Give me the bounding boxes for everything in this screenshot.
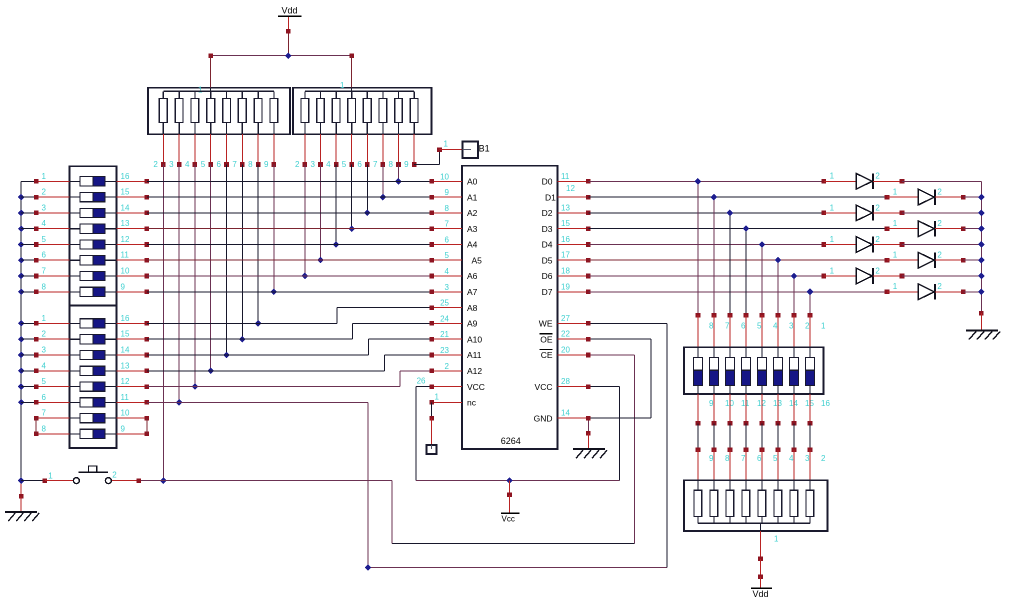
RP1 pin 7 square (240, 162, 245, 167)
svg-text:7: 7 (725, 322, 730, 331)
DSW2 switch 3 glyph (70, 350, 117, 359)
U1 pin 23 (A11) stub (432, 354, 462, 356)
DSW3 pin 2 stub (793, 315, 795, 347)
wire D3 to right bus (963, 228, 981, 230)
RP3 pin 3 stub (793, 450, 795, 481)
DSW2 pin 6 stub (21, 401, 69, 403)
DSW3 pin 12 stub (745, 394, 747, 424)
svg-text:9: 9 (445, 188, 450, 197)
wire RP2 pin 7 pull-up vertical (382, 165, 384, 198)
RP3 pin 7 stub (729, 450, 731, 481)
DSW1 pin 2 square (34, 195, 39, 200)
RP1 pin 6 square (224, 162, 229, 167)
wire RP2 pin 3 pull-up vertical (320, 165, 322, 261)
wire DSW3 pin 9 to RP3 (697, 423, 699, 449)
U1 pin 12 (D1) stub (558, 196, 589, 198)
DSW1 switch 6 glyph (70, 256, 117, 265)
svg-text:4: 4 (42, 219, 47, 228)
svg-text:19: 19 (561, 282, 570, 291)
U1 pin 1 square (429, 400, 434, 405)
wire RP2 pin 2 pull-up vertical (304, 165, 306, 277)
diode D4 (887, 221, 963, 237)
wire address A10 route (147, 339, 432, 355)
wire RP2 pin 5 pull-up vertical (351, 165, 353, 229)
DSW3 pin 11 stub (729, 394, 731, 424)
RP2 resistor element 4 (332, 91, 340, 164)
wire DSW3 pin 11 to RP3 (729, 423, 731, 449)
svg-text:18: 18 (561, 267, 570, 276)
wire data row D1 (588, 196, 887, 198)
DSW3 pin 8 square (696, 313, 701, 318)
svg-text:3: 3 (789, 322, 794, 331)
DSW1 pin 10 square (145, 274, 150, 279)
DSW1 pin 15 square (145, 195, 150, 200)
RP1 internal bus (163, 90, 274, 92)
DSW1 switch 2 glyph (70, 193, 117, 202)
node D0 tap junction (695, 178, 702, 185)
diode D7 pin labels (830, 266, 881, 275)
svg-text:2: 2 (295, 160, 300, 169)
DSW2 pin 12 stub (117, 386, 147, 388)
DSW2 pin 5 stub (21, 386, 69, 388)
RP1 resistor element 3 (175, 91, 183, 164)
DSW2 pin 15 stub (117, 338, 147, 340)
U1 pin 11 square (586, 179, 591, 184)
svg-text:7: 7 (42, 409, 47, 418)
wire address A9 route (147, 323, 432, 339)
svg-text:Vdd: Vdd (753, 589, 769, 599)
wire address row A1 (147, 196, 432, 198)
wire RP2 pin 6 pull-up vertical (366, 165, 368, 213)
svg-text:A8: A8 (467, 303, 478, 313)
RP1 pin 9 square (272, 162, 277, 167)
RP3 common pin 1 wire (760, 523, 762, 559)
pin square button pin 2 (137, 478, 142, 483)
DSW3 pin 9 stub (697, 394, 699, 424)
diode D8 (887, 284, 963, 300)
svg-text:1: 1 (774, 535, 779, 544)
DSW2 pin 7 square (34, 416, 39, 421)
wire RP1 pin 7 pull-up vertical (241, 165, 243, 340)
U1 pin 10 (A0) stub (432, 180, 462, 182)
DSW2 pin 16 square (145, 321, 150, 326)
DSW3 switch 2 glyph (789, 347, 798, 394)
RP3 pin 9 square (696, 447, 701, 452)
DSW3 pin 6 square (728, 313, 733, 318)
power symbol Vdd (bottom) (751, 577, 772, 599)
wire D1 to right bus (963, 196, 981, 198)
node RP2 pin 8 junction (395, 178, 402, 185)
svg-text:15: 15 (561, 219, 570, 228)
node left bus junction (18, 399, 25, 406)
node RP1 pin 9 junction (271, 288, 278, 295)
DSW1 pin 14 stub (117, 212, 147, 214)
DSW3 switch 5 glyph (741, 347, 750, 394)
U1 pin 17 (D5) stub (558, 259, 589, 261)
DSW3 pin 7 stub (713, 315, 715, 347)
U1 pin 26 square (429, 384, 434, 389)
wire RP2 pin 8 pull-up vertical (398, 165, 400, 182)
svg-text:6: 6 (357, 160, 362, 169)
svg-text:16: 16 (821, 399, 830, 408)
RP3 pin 5 square (760, 447, 765, 452)
DSW2 switch 2 glyph (70, 335, 117, 344)
node left bus junction (18, 352, 25, 359)
node D4 tap junction (759, 241, 766, 248)
U1 pin 20 (CE) stub (558, 354, 589, 356)
diode D7 pin 1 square (822, 274, 827, 279)
RP3 pin 5 stub (761, 450, 763, 481)
svg-text:2: 2 (805, 322, 810, 331)
node D3 tap junction (743, 225, 750, 232)
diode D1 pin 1 square (822, 179, 827, 184)
wire D6 to right bus (902, 275, 981, 277)
DSW2 pin 3 stub (21, 354, 69, 356)
DSW2 pin 14 stub (117, 354, 147, 356)
RP1 pin 5 square (208, 162, 213, 167)
ground (chip GND) (573, 449, 607, 458)
node RP1 pin 8 junction (255, 320, 262, 327)
svg-text:4: 4 (42, 361, 47, 370)
U1 pin 5 (A5) stub (432, 259, 462, 261)
RP3 resistor element 3 (790, 480, 798, 523)
DSW1 pin 16 stub (117, 180, 147, 182)
U1 pin 28 square (586, 384, 591, 389)
RP1 resistor element 5 (207, 91, 215, 164)
svg-text:A1: A1 (467, 192, 478, 202)
pin square B1 pin 1 (437, 147, 442, 152)
svg-text:17: 17 (561, 251, 570, 260)
svg-text:12: 12 (121, 235, 130, 244)
svg-text:A6: A6 (467, 271, 478, 281)
wire DSW3 pin 13 to RP3 (761, 423, 763, 449)
node WE net corner junction (365, 564, 372, 571)
DSW3 pin 3 stub (777, 315, 779, 347)
svg-text:A7: A7 (467, 287, 478, 297)
svg-text:12: 12 (121, 377, 130, 386)
DIP switch DSW1 body (70, 166, 117, 305)
U1 pin 15 square (586, 226, 591, 231)
DSW3 switch 3 glyph (773, 347, 782, 394)
DSW2 switch 6 glyph (70, 398, 117, 407)
node left bus junction (18, 225, 25, 232)
DSW1 switch 1 glyph (70, 177, 117, 186)
wire RP1 pin 2 pull-up vertical (162, 165, 164, 481)
DSW2 pin 11 stub (117, 401, 147, 403)
U1 pin 26 (VCC) stub (432, 386, 462, 388)
DSW1 switch 3 glyph (70, 208, 117, 217)
U1 pin 11 (D0) stub (558, 180, 589, 182)
pin square test connector (429, 416, 434, 421)
wire address row A5 (147, 259, 432, 261)
diode D2 pin 1 square (885, 195, 890, 200)
wire D7 to DSW3 pin 1 (809, 292, 811, 315)
U1 pin 19 (D7) stub (558, 291, 589, 293)
U1 pin 27 square (586, 321, 591, 326)
DSW3 pin 5 square (744, 313, 749, 318)
DSW1 pin 4 square (34, 226, 39, 231)
RP1 resistor element 2 (159, 91, 167, 164)
U1 pin 17 square (586, 258, 591, 263)
DSW1 pin 3 stub (21, 212, 69, 214)
node RP1 pin 5 junction (207, 367, 214, 374)
DSW3 switch 8 glyph (693, 347, 702, 394)
wire RP1 pin 9 pull-up vertical (273, 165, 275, 292)
U1 pin 21 square (429, 337, 434, 342)
DSW1 pin 7 square (34, 274, 39, 279)
svg-text:1: 1 (893, 251, 898, 260)
svg-text:Vcc: Vcc (502, 515, 515, 524)
svg-text:25: 25 (440, 299, 449, 308)
node left bus junction (18, 383, 25, 390)
svg-text:10: 10 (121, 409, 130, 418)
svg-text:1: 1 (48, 472, 53, 481)
svg-text:1: 1 (198, 86, 203, 95)
node RP2 pin 7 junction (380, 194, 387, 201)
svg-text:2: 2 (153, 160, 158, 169)
svg-text:WE: WE (539, 319, 553, 329)
svg-text:7: 7 (42, 267, 47, 276)
DSW3 switch 6 glyph (725, 347, 734, 394)
DSW3 pin 14 square (776, 421, 781, 426)
RP2 pin 6 square (365, 162, 370, 167)
svg-text:2: 2 (42, 330, 47, 339)
svg-text:nc: nc (467, 398, 477, 408)
node left bus junction (18, 320, 25, 327)
DSW2 pin 7 stub (36, 417, 69, 419)
svg-text:14: 14 (561, 409, 570, 418)
svg-text:9: 9 (264, 160, 269, 169)
push button SW1 (45, 466, 139, 484)
wire ground right stub (980, 313, 982, 330)
diode D5 pin 1 square (822, 242, 827, 247)
node D1 tap junction (711, 194, 718, 201)
diode D2 pin labels (893, 188, 943, 197)
svg-text:D4: D4 (542, 240, 553, 250)
DIP switch DSW2 body (70, 306, 117, 449)
U1 pin 2 (A12) stub (432, 370, 462, 372)
svg-text:2: 2 (875, 235, 880, 244)
DSW1 pin 1 stub (21, 180, 69, 182)
svg-text:13: 13 (121, 219, 130, 228)
wire address A8 route (147, 308, 432, 324)
DSW2 pin 11 square (145, 400, 150, 405)
diode D8 pin 2 square (961, 290, 966, 295)
DSW3 pin 16 square (808, 421, 813, 426)
RP1 pin 8 square (256, 162, 261, 167)
RP3 pin 8 square (712, 447, 717, 452)
DSW2 pin 2 square (34, 337, 39, 342)
U1 pin 8 (A2) stub (432, 212, 462, 214)
diode D6 pin 2 square (961, 258, 966, 263)
DSW3 pin 16 stub (809, 394, 811, 424)
U1 pin 4 (A6) stub (432, 275, 462, 277)
diode D4 pin 2 square (961, 226, 966, 231)
svg-text:24: 24 (440, 314, 449, 323)
DSW3 pin 13 stub (761, 394, 763, 424)
U1 pin 9 (A1) stub (432, 196, 462, 198)
connector B1 (463, 142, 479, 159)
DSW2 pin 5 square (34, 384, 39, 389)
node left bus junction (18, 288, 25, 295)
svg-text:5: 5 (342, 160, 347, 169)
diode D3 pin 2 square (900, 211, 905, 216)
U1 pin 9 square (429, 195, 434, 200)
RP3 resistor element 6 (742, 480, 750, 523)
svg-text:2: 2 (42, 188, 47, 197)
svg-text:6: 6 (757, 454, 762, 463)
diode D5 pin labels (830, 235, 881, 244)
DSW1 pin 3 square (34, 211, 39, 216)
U1 pin 25 square (429, 305, 434, 310)
svg-text:A2: A2 (467, 208, 478, 218)
svg-text:28: 28 (561, 377, 570, 386)
svg-text:16: 16 (121, 314, 130, 323)
RP1 resistor element 9 (270, 91, 278, 164)
DSW2 pin 1 square (34, 321, 39, 326)
svg-text:2: 2 (875, 172, 880, 181)
DSW3 pin 3 square (776, 313, 781, 318)
svg-text:16: 16 (121, 172, 130, 181)
svg-text:D6: D6 (542, 271, 553, 281)
wire DSW2 pins 7-8 link (35, 418, 37, 434)
node left bus junction (18, 194, 25, 201)
RP2 resistor element 3 (317, 91, 325, 164)
node D7 tap junction (807, 288, 814, 295)
RP1 pin 3 square (177, 162, 182, 167)
pin square Vdd (286, 29, 291, 34)
wire D4 to right bus (902, 244, 981, 246)
DSW3 pin 8 stub (697, 315, 699, 347)
DSW3 pin 13 square (760, 421, 765, 426)
diode D4 pin labels (893, 219, 943, 228)
DSW3 pin 4 square (760, 313, 765, 318)
wire address row A3 (147, 228, 432, 230)
U1 pin 13 (D2) stub (558, 212, 589, 214)
wire D1 to DSW3 pin 7 (713, 197, 715, 315)
DSW1 pin 6 stub (21, 259, 69, 261)
wire D2 to right bus (902, 212, 981, 214)
RP3 pin 4 square (776, 447, 781, 452)
wire OE net route (588, 339, 651, 418)
svg-text:Vdd: Vdd (282, 6, 298, 16)
wire RP3 to Vdd (760, 559, 762, 577)
svg-text:2: 2 (937, 282, 942, 291)
wire D2 to DSW3 pin 6 (729, 213, 731, 315)
DSW1 pin 8 square (34, 290, 39, 295)
pin square Vcc (507, 493, 512, 498)
svg-text:11: 11 (121, 393, 130, 402)
node D2 tap junction (727, 210, 734, 217)
node right bus junction (978, 225, 985, 232)
RP2 resistor element 6 (363, 91, 371, 164)
svg-text:5: 5 (42, 235, 47, 244)
wire Vdd bus (211, 55, 352, 57)
diode D3 pin 1 square (822, 211, 827, 216)
svg-text:A10: A10 (467, 334, 482, 344)
pin square RP2 common (349, 53, 354, 58)
RP3 resistor element 2 (806, 480, 814, 523)
pin square ground chip (586, 431, 591, 436)
svg-text:1: 1 (893, 219, 898, 228)
wire data row D3 (588, 228, 887, 230)
wire B1 pin stub (440, 149, 463, 151)
svg-text:3: 3 (42, 203, 47, 212)
svg-text:5: 5 (773, 454, 778, 463)
node D5 tap junction (775, 257, 782, 264)
DSW3 pin 6 stub (729, 315, 731, 347)
DSW1 pin 2 stub (21, 196, 69, 198)
DSW2 pin 13 square (145, 369, 150, 374)
wire button pin 1 to bus (21, 480, 45, 482)
node left bus junction (18, 241, 25, 248)
RP3 pin 4 stub (777, 450, 779, 481)
node Vcc junction (506, 477, 513, 484)
svg-text:5: 5 (201, 160, 206, 169)
svg-text:1: 1 (444, 140, 449, 149)
diode D4 pin 1 square (885, 226, 890, 231)
svg-text:CE: CE (541, 350, 553, 360)
wire WE net row (DSW2.11) (147, 323, 667, 567)
DSW1 pin 6 square (34, 258, 39, 263)
diode D6 pin labels (893, 251, 943, 260)
wire left bus to ground (20, 481, 22, 497)
DSW3 pin 10 stub (713, 394, 715, 424)
DSW3 pin 1 stub (809, 315, 811, 347)
DSW2 pin 3 square (34, 353, 39, 358)
diode D3 pin labels (830, 203, 881, 212)
U1 pin 24 (A9) stub (432, 322, 462, 324)
node RP1 pin 6 junction (223, 352, 230, 359)
DSW1 switch 5 glyph (70, 240, 117, 249)
U1 pin name OE overline (540, 333, 553, 335)
U1 pin 14 square (586, 416, 591, 421)
diode D3 (824, 205, 902, 221)
svg-text:5: 5 (42, 377, 47, 386)
svg-text:2: 2 (875, 266, 880, 275)
DSW2 pin 6 square (34, 400, 39, 405)
DSW1 pin 7 stub (21, 275, 69, 277)
node RP1 pin 7 junction (239, 336, 246, 343)
node right bus junction (978, 241, 985, 248)
DSW1 switch 4 glyph (70, 224, 117, 233)
svg-text:1: 1 (893, 188, 898, 197)
DSW2 switch 7 glyph (70, 414, 117, 423)
node RP2 pin 4 junction (333, 241, 340, 248)
U1 pin 18 (D6) stub (558, 275, 589, 277)
svg-text:1: 1 (42, 314, 47, 323)
diode D8 pin labels (893, 282, 943, 291)
node RP1 pin 4 junction (192, 383, 199, 390)
svg-text:8: 8 (248, 160, 253, 169)
svg-text:14: 14 (121, 346, 130, 355)
svg-text:8: 8 (445, 204, 450, 213)
svg-text:27: 27 (561, 314, 570, 323)
wire DSW3 pin 16 to RP3 (809, 423, 811, 449)
svg-text:D0: D0 (542, 177, 553, 187)
svg-text:D5: D5 (542, 255, 553, 265)
wire address row A4 (147, 244, 432, 246)
diode D6 pin 1 square (885, 258, 890, 263)
svg-text:8: 8 (389, 160, 394, 169)
svg-text:8: 8 (42, 424, 47, 433)
svg-text:1: 1 (830, 266, 835, 275)
svg-text:9: 9 (709, 454, 714, 463)
ground (bottom left) (5, 512, 39, 521)
wire address row A7 (147, 291, 432, 293)
DSW2 pin 9 stub (117, 433, 147, 435)
U1 pin 5 square (429, 258, 434, 263)
